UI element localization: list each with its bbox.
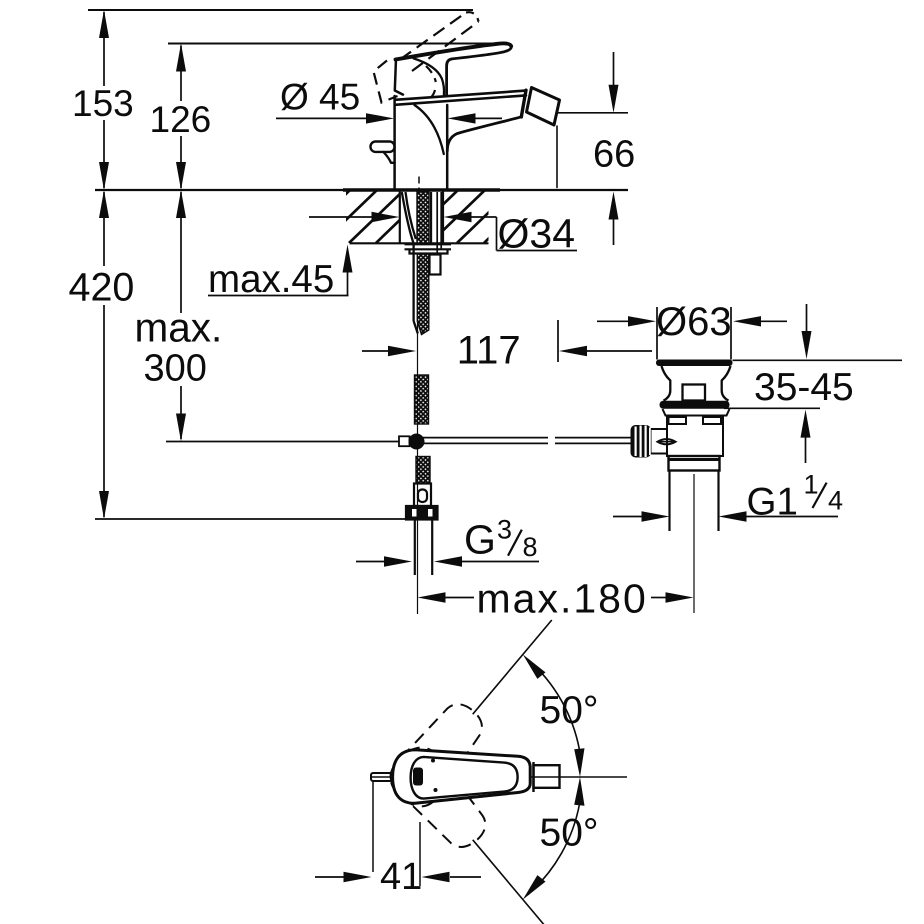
svg-text:4: 4 xyxy=(828,486,843,516)
svg-text:35-45: 35-45 xyxy=(754,366,854,409)
svg-text:153: 153 xyxy=(72,83,134,124)
svg-text:41: 41 xyxy=(380,856,422,898)
svg-text:G1: G1 xyxy=(747,481,798,524)
svg-text:3: 3 xyxy=(497,515,512,545)
svg-text:G: G xyxy=(464,517,496,563)
svg-text:300: 300 xyxy=(144,348,207,390)
svg-text:117: 117 xyxy=(457,329,521,373)
svg-text:50°: 50° xyxy=(540,689,599,732)
svg-text:Ø34: Ø34 xyxy=(498,211,576,257)
svg-text:Ø 45: Ø 45 xyxy=(280,77,360,118)
svg-text:126: 126 xyxy=(150,99,212,140)
svg-text:Ø63: Ø63 xyxy=(656,300,732,344)
svg-text:420: 420 xyxy=(69,266,135,310)
svg-text:8: 8 xyxy=(523,532,538,562)
svg-text:1: 1 xyxy=(804,470,819,500)
svg-text:max.45: max.45 xyxy=(208,258,334,301)
svg-text:max.180: max.180 xyxy=(477,576,648,622)
svg-text:max.: max. xyxy=(135,305,223,351)
svg-text:66: 66 xyxy=(593,134,635,176)
svg-text:50°: 50° xyxy=(540,812,599,855)
